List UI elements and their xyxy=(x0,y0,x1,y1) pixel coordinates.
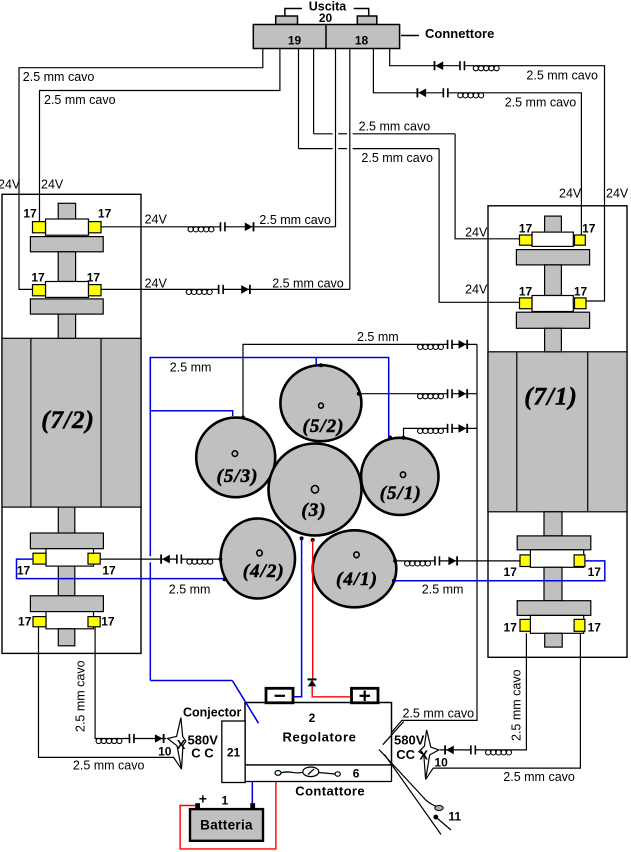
svg-text:17: 17 xyxy=(588,621,602,635)
svg-text:17: 17 xyxy=(98,206,112,220)
svg-text:2.5 mm cavo: 2.5 mm cavo xyxy=(73,759,145,773)
svg-text:17: 17 xyxy=(23,206,37,220)
svg-text:2.5 mm: 2.5 mm xyxy=(357,330,399,344)
svg-text:17: 17 xyxy=(17,564,31,578)
svg-text:C C: C C xyxy=(191,746,214,761)
svg-text:17: 17 xyxy=(504,621,518,635)
svg-text:2.5 mm: 2.5 mm xyxy=(170,361,212,375)
svg-text:24V: 24V xyxy=(41,178,64,192)
svg-text:21: 21 xyxy=(227,746,241,760)
svg-text:2.5 mm cavo: 2.5 mm cavo xyxy=(503,770,575,784)
svg-text:Connettore: Connettore xyxy=(425,26,494,41)
svg-text:17: 17 xyxy=(574,284,588,298)
svg-text:19: 19 xyxy=(288,34,302,48)
svg-text:2.5 mm cavo: 2.5 mm cavo xyxy=(403,707,475,721)
svg-text:2.5 mm cavo: 2.5 mm cavo xyxy=(272,277,344,291)
svg-text:X: X xyxy=(419,748,428,763)
svg-text:(7/2): (7/2) xyxy=(41,407,95,434)
svg-text:24V: 24V xyxy=(145,213,168,227)
svg-text:2.5 mm cavo: 2.5 mm cavo xyxy=(74,660,88,732)
svg-text:2.5 mm cavo: 2.5 mm cavo xyxy=(44,93,116,107)
svg-text:580V: 580V xyxy=(394,733,425,748)
svg-text:24V: 24V xyxy=(465,226,488,240)
svg-text:10: 10 xyxy=(434,756,448,770)
svg-text:17: 17 xyxy=(101,614,115,628)
svg-text:17: 17 xyxy=(504,565,518,579)
svg-text:2: 2 xyxy=(309,711,316,725)
svg-text:17: 17 xyxy=(31,270,45,284)
svg-text:17: 17 xyxy=(519,284,533,298)
svg-text:2.5 mm cavo: 2.5 mm cavo xyxy=(259,213,331,227)
svg-text:(4/2): (4/2) xyxy=(243,561,285,582)
svg-text:CC: CC xyxy=(396,747,415,762)
svg-text:24V: 24V xyxy=(145,277,168,291)
svg-text:+: + xyxy=(199,791,207,807)
svg-text:10: 10 xyxy=(158,745,172,759)
svg-text:(5/1): (5/1) xyxy=(380,483,422,504)
svg-text:2.5 mm cavo: 2.5 mm cavo xyxy=(23,70,95,84)
svg-text:24V: 24V xyxy=(465,283,488,297)
svg-text:18: 18 xyxy=(355,34,369,48)
svg-text:17: 17 xyxy=(582,222,596,236)
svg-text:17: 17 xyxy=(519,222,533,236)
svg-text:2.5 mm cavo: 2.5 mm cavo xyxy=(526,69,598,83)
svg-text:17: 17 xyxy=(18,614,32,628)
svg-text:2.5 mm: 2.5 mm xyxy=(422,583,464,597)
svg-text:24V: 24V xyxy=(606,187,629,201)
svg-text:(7/1): (7/1) xyxy=(524,384,578,411)
svg-text:2.5 mm cavo: 2.5 mm cavo xyxy=(510,669,524,741)
svg-text:20: 20 xyxy=(319,11,333,25)
svg-text:(3): (3) xyxy=(301,500,326,521)
svg-text:1: 1 xyxy=(222,794,229,808)
svg-text:2.5 mm: 2.5 mm xyxy=(169,583,211,597)
svg-text:11: 11 xyxy=(448,810,461,824)
svg-text:17: 17 xyxy=(102,564,116,578)
svg-text:X: X xyxy=(177,737,186,752)
svg-text:(5/3): (5/3) xyxy=(217,466,259,487)
svg-text:6: 6 xyxy=(353,767,360,781)
svg-text:17: 17 xyxy=(588,565,602,579)
svg-text:Batteria: Batteria xyxy=(200,818,253,833)
svg-text:2.5 mm cavo: 2.5 mm cavo xyxy=(361,151,433,165)
svg-text:(5/2): (5/2) xyxy=(303,416,345,437)
svg-text:(4/1): (4/1) xyxy=(336,569,378,590)
svg-text:2.5 mm cavo: 2.5 mm cavo xyxy=(505,96,577,110)
svg-text:17: 17 xyxy=(87,270,101,284)
svg-text:Regolatore: Regolatore xyxy=(283,730,357,745)
svg-text:2.5 mm cavo: 2.5 mm cavo xyxy=(359,120,431,134)
svg-text:24V: 24V xyxy=(0,178,21,192)
svg-text:Conjector: Conjector xyxy=(183,706,241,720)
svg-text:24V: 24V xyxy=(559,187,582,201)
svg-text:Contattore: Contattore xyxy=(295,783,365,798)
